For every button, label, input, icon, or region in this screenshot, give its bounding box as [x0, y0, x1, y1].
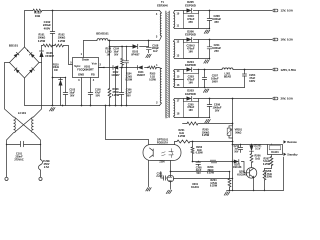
svg-text:Vstr: Vstr	[92, 62, 97, 66]
ground snubber	[146, 54, 151, 57]
resistor R203	[211, 160, 217, 163]
resistor R105	[149, 66, 157, 69]
diode D101	[138, 66, 143, 70]
wire rail3	[175, 69, 273, 71]
junction	[109, 105, 111, 107]
svg-text:11: 11	[177, 24, 180, 27]
svg-text:Drain: Drain	[82, 58, 89, 62]
junction	[62, 105, 64, 107]
svg-text:12V, 0.5A: 12V, 0.5A	[281, 8, 293, 12]
junction	[52, 105, 54, 107]
pin 1 drain	[83, 41, 85, 58]
svg-text:1W: 1W	[107, 55, 111, 57]
wire bottom bus	[227, 157, 284, 191]
svg-text:50V: 50V	[196, 172, 201, 175]
svg-text:BEAD101: BEAD101	[96, 31, 109, 35]
wire top DC rail	[25, 11, 160, 48]
capacitor C209.5 boxed	[184, 40, 199, 43]
svg-text:R106: R106	[106, 49, 112, 51]
svg-text:0.25W: 0.25W	[38, 40, 46, 43]
pot VR201	[229, 126, 233, 138]
svg-text:BEAD: BEAD	[224, 75, 231, 79]
transformer aux winding	[159, 68, 162, 69]
wire KA431 to gnd	[170, 182, 172, 189]
svg-text:1.2kΩ: 1.2kΩ	[105, 52, 112, 54]
capacitor C211	[209, 40, 211, 59]
pin GND to bus	[81, 78, 83, 106]
capacitor C201	[161, 172, 167, 179]
svg-text:35V: 35V	[188, 20, 193, 24]
svg-text:0.25W: 0.25W	[207, 172, 215, 175]
svg-text:50kΩ: 50kΩ	[235, 131, 241, 134]
capacitor C106 column	[121, 68, 123, 106]
svg-text:5.1V: 5.1V	[255, 147, 260, 150]
resistor R102	[55, 44, 64, 47]
capacitor C212	[240, 145, 242, 153]
signal Standby	[284, 153, 287, 156]
diode D103	[133, 44, 138, 49]
svg-text:20V, 0.5A: 20V, 0.5A	[281, 97, 293, 101]
svg-text:0.25W: 0.25W	[263, 163, 271, 166]
svg-text:5.1Ω: 5.1Ω	[150, 77, 155, 79]
bridge diode bottom-right	[29, 68, 34, 73]
svg-text:UF4007: UF4007	[45, 55, 55, 58]
inductor L201 bead	[222, 68, 233, 70]
diode D203	[187, 96, 192, 100]
wire aux node row	[53, 77, 66, 79]
ground opto left	[146, 188, 151, 191]
svg-text:KSC945: KSC945	[237, 173, 247, 176]
svg-text:50V: 50V	[126, 95, 131, 98]
resistor R201	[175, 141, 233, 143]
wire row to DA101	[233, 144, 268, 146]
svg-text:2: 2	[156, 100, 158, 104]
zener ZD101	[60, 78, 62, 106]
diode D206	[187, 37, 192, 41]
svg-text:Z206: Z206	[159, 162, 165, 164]
diode D205	[187, 8, 192, 12]
svg-text:0.25W: 0.25W	[210, 185, 218, 188]
wire AC line left	[5, 63, 14, 118]
svg-text:GND: GND	[78, 73, 84, 77]
transformer secondary winding D	[174, 99, 175, 101]
svg-text:FSCQ0965RT: FSCQ0965RT	[77, 68, 94, 72]
wire R205 row	[183, 123, 233, 125]
capacitor C203 boxed	[184, 70, 199, 74]
svg-text:50V: 50V	[114, 55, 119, 57]
resistor R207	[271, 145, 273, 157]
svg-text:16V, 0.3A: 16V, 0.3A	[281, 37, 293, 41]
svg-text:DA101: DA101	[271, 151, 279, 154]
svg-text:C212: C212	[234, 146, 240, 148]
wire vcc row	[99, 67, 159, 69]
svg-text:12: 12	[177, 41, 180, 44]
capacitor C205 boxed	[184, 99, 199, 102]
svg-text:160V: 160V	[212, 79, 218, 83]
svg-text:35V: 35V	[214, 20, 219, 24]
wire bridge minus to gnd bus	[25, 78, 52, 106]
svg-text:4: 4	[156, 12, 158, 16]
svg-text:C104: C104	[113, 48, 119, 51]
svg-text:10uF: 10uF	[113, 52, 119, 54]
svg-text:EGP30D: EGP30D	[185, 63, 196, 67]
node	[52, 45, 54, 47]
svg-text:16V: 16V	[188, 81, 193, 85]
svg-text:2.2nF: 2.2nF	[156, 175, 163, 178]
junction	[109, 40, 111, 42]
svg-text:160V: 160V	[249, 79, 255, 83]
svg-text:EGP30D: EGP30D	[185, 3, 196, 7]
shunt U201 KA431	[167, 175, 174, 182]
capacitor C105 on FB	[88, 93, 93, 94]
svg-text:LF101: LF101	[18, 111, 27, 115]
svg-text:400V: 400V	[44, 27, 51, 31]
svg-text:1uF: 1uF	[234, 149, 239, 151]
svg-text:275VAC: 275VAC	[14, 159, 23, 162]
svg-text:EER3040: EER3040	[157, 4, 168, 7]
fuse F101	[38, 160, 42, 171]
resistor R202 column	[192, 142, 194, 162]
svg-text:KA431: KA431	[191, 186, 199, 189]
bridge diode bottom-left	[14, 68, 19, 73]
resistor R204	[229, 172, 231, 191]
svg-text:17: 17	[177, 100, 180, 103]
svg-text:Standby: Standby	[287, 152, 298, 156]
ground rail1	[204, 30, 210, 33]
diode D102	[113, 66, 118, 70]
svg-text:4: 4	[93, 78, 95, 82]
inductor BEAD101	[97, 39, 108, 41]
capacitor C101	[7, 141, 41, 147]
transformer secondary winding C	[174, 70, 175, 72]
svg-text:50V: 50V	[96, 95, 101, 98]
junction	[121, 105, 123, 107]
svg-text:2.5A: 2.5A	[44, 166, 49, 169]
wire Q emitter	[253, 178, 255, 191]
capacitor C108 resonant	[148, 41, 150, 53]
svg-text:BD101: BD101	[9, 44, 19, 48]
junction	[105, 105, 107, 107]
svg-text:1: 1	[156, 63, 158, 67]
svg-text:0.25W: 0.25W	[58, 40, 66, 43]
wire rail1 return	[175, 28, 210, 30]
junction	[115, 105, 117, 107]
junction	[126, 105, 128, 107]
wire choke to AC terminals	[7, 133, 41, 178]
capacitor C103	[65, 78, 67, 106]
resistor R101	[43, 44, 52, 47]
connector 20V	[273, 97, 278, 100]
transformer primary winding	[160, 11, 162, 14]
svg-text:+: +	[27, 49, 29, 53]
svg-text:0.25W: 0.25W	[265, 176, 273, 179]
wire rail4 return	[175, 117, 210, 119]
svg-text:14: 14	[177, 70, 180, 73]
bridge diode top-left	[14, 52, 19, 57]
svg-text:3: 3	[78, 78, 80, 82]
junction	[81, 105, 83, 107]
transformer core	[166, 11, 169, 118]
transistor Q201	[246, 168, 257, 179]
op-amp U101 FSCQ0965RT box	[73, 58, 99, 78]
ground rail4	[205, 119, 211, 122]
diode D106	[41, 46, 43, 63]
ground rail3	[203, 89, 209, 92]
wire primary gnd bus	[52, 105, 160, 107]
svg-text:0.25W: 0.25W	[149, 80, 157, 82]
resistor R106 snubber	[121, 47, 123, 68]
wire AC line right	[34, 63, 42, 118]
AC terminal N	[39, 177, 42, 180]
node bulk+	[52, 10, 54, 12]
transformer secondary winding B	[174, 40, 175, 42]
signal Remote	[284, 140, 287, 143]
svg-text:18: 18	[177, 112, 180, 115]
capacitor C202fb	[198, 162, 200, 167]
wire rail3 bottom row	[175, 87, 245, 89]
svg-text:13: 13	[177, 54, 180, 57]
wire drain row	[84, 40, 160, 42]
resistor R205	[187, 122, 198, 125]
diode D201	[234, 160, 239, 164]
zener ZD201	[251, 145, 253, 154]
svg-text:R105: R105	[150, 74, 156, 76]
svg-text:0.25W: 0.25W	[202, 134, 210, 137]
wire KA431 cathode row	[173, 178, 232, 180]
svg-text:Remote: Remote	[287, 140, 297, 144]
svg-text:3: 3	[156, 34, 158, 38]
svg-text:1kV: 1kV	[153, 49, 158, 53]
svg-text:UF4007: UF4007	[131, 53, 140, 56]
svg-text:125V, 0.55A: 125V, 0.55A	[281, 68, 297, 72]
resistor R108 column	[115, 68, 117, 106]
capacitor C204	[244, 70, 246, 88]
junction	[90, 105, 92, 107]
diode D204	[187, 67, 192, 71]
svg-text:EGP30D: EGP30D	[185, 92, 196, 96]
connector 16V	[273, 38, 278, 41]
svg-text:Sync: Sync	[74, 64, 81, 68]
wire pin15 tap	[175, 79, 184, 81]
AC terminal L	[5, 177, 8, 180]
svg-text:D101: D101	[138, 72, 144, 74]
svg-text:16V: 16V	[215, 108, 220, 112]
wire snubber row	[110, 46, 149, 48]
wire KA431 ref row	[171, 171, 230, 173]
ground rail2	[204, 60, 209, 63]
pin 2 vcc	[99, 67, 105, 69]
wire rail4	[175, 99, 273, 191]
wire rail1	[175, 10, 273, 12]
pin FB to bus	[90, 78, 92, 106]
svg-text:0.25W: 0.25W	[178, 135, 186, 138]
capacitor C208	[209, 11, 211, 29]
svg-text:5: 5	[70, 60, 72, 64]
capacitor C206	[209, 99, 211, 118]
wire fb drop to opto	[106, 106, 149, 145]
transformer secondary winding A	[174, 11, 175, 14]
svg-text:16V: 16V	[188, 50, 193, 54]
svg-text:1N4937: 1N4937	[137, 74, 146, 77]
svg-text:0.25W: 0.25W	[196, 152, 204, 155]
capacitor C207	[204, 70, 206, 88]
wire column	[126, 68, 128, 106]
ground bottom bus	[224, 192, 230, 195]
svg-text:1N4148: 1N4148	[233, 166, 242, 169]
svg-text:EGP30D: EGP30D	[185, 32, 196, 36]
junction	[121, 67, 123, 69]
opto pins	[149, 142, 175, 187]
wire rail2 return	[175, 58, 210, 60]
svg-text:0.25W: 0.25W	[112, 94, 120, 97]
svg-text:10Ω: 10Ω	[35, 14, 41, 18]
svg-text:25V: 25V	[214, 49, 219, 53]
connector 24.5V	[273, 9, 278, 12]
capacitor C102	[52, 11, 54, 106]
IC DA101 box	[268, 145, 283, 155]
connector 125V	[273, 68, 278, 71]
svg-text:FOD817A: FOD817A	[157, 141, 168, 144]
svg-text:1kΩ: 1kΩ	[255, 157, 260, 160]
svg-text:50V: 50V	[70, 95, 75, 98]
svg-text:FB: FB	[91, 73, 95, 77]
svg-text:2: 2	[99, 63, 101, 67]
wire Vstr row	[42, 46, 73, 65]
resistor R208	[264, 169, 266, 171]
svg-text:15: 15	[177, 76, 180, 79]
svg-text:16V: 16V	[189, 109, 194, 112]
wire snubber drop + resistor R108	[109, 41, 111, 106]
ground primary	[50, 108, 56, 111]
capacitor C104 snubber	[126, 47, 128, 68]
resistor R206	[250, 154, 253, 163]
svg-text:10: 10	[177, 13, 180, 16]
svg-text:1W: 1W	[54, 69, 58, 72]
wire rail2	[175, 39, 273, 41]
svg-text:16: 16	[177, 84, 180, 87]
wire feedback row	[193, 162, 247, 173]
svg-text:50V: 50V	[234, 151, 239, 153]
resistor R103	[33, 9, 42, 12]
bridge diode top-right	[29, 52, 34, 57]
capacitor C210 boxed	[184, 11, 199, 14]
svg-text:1: 1	[81, 52, 83, 56]
